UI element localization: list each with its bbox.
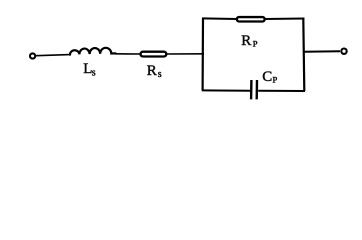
capacitor CP (251, 80, 257, 99)
wire (right vertical of parallel loop) (303, 18, 304, 91)
wire (167, 53, 205, 55)
right terminal (341, 49, 346, 54)
label Rs (147, 63, 162, 80)
wire (bottom right segment) (258, 90, 305, 92)
resistor Rs (141, 52, 167, 57)
label Ls (83, 61, 96, 78)
svg-text:s: s (158, 69, 162, 80)
label RP (241, 33, 257, 49)
wire (top left segment) (202, 17, 237, 20)
wire (left vertical of parallel loop) (202, 18, 205, 90)
svg-text:P: P (273, 75, 278, 85)
inductor Ls (70, 48, 116, 55)
wire (115, 53, 140, 55)
label CP (262, 69, 277, 85)
left terminal (30, 53, 35, 58)
svg-text:C: C (262, 69, 272, 85)
resistor RP (237, 17, 265, 21)
svg-text:R: R (241, 33, 251, 49)
wire (output lead) (304, 50, 340, 52)
wire (36, 55, 70, 56)
svg-text:R: R (147, 63, 157, 79)
svg-text:s: s (92, 67, 96, 78)
wire (top right segment) (265, 18, 305, 21)
svg-text:P: P (253, 38, 258, 48)
wire (bottom left segment) (202, 89, 251, 91)
